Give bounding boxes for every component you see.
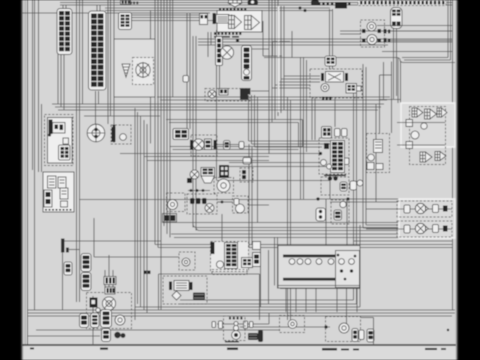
wire y199 xyxy=(316,198,452,200)
wire stubs below E xyxy=(207,32,209,57)
flasher run 1 xyxy=(397,201,452,217)
dashed strip above tail box xyxy=(212,270,247,275)
frame bottom border xyxy=(22,344,456,346)
wire y153 xyxy=(120,153,321,155)
right white panel lower xyxy=(399,199,455,238)
starter connectors DD xyxy=(81,254,91,272)
top small round x311 xyxy=(311,0,319,6)
wire bus x187-196 xyxy=(186,13,188,129)
harness box right edge xyxy=(302,120,304,147)
pickup rotor S xyxy=(87,124,105,142)
magneto cluster CC xyxy=(87,293,132,329)
wire bus x300-316 xyxy=(300,57,302,199)
left pill by CC xyxy=(80,314,89,328)
wire bus x216 xyxy=(216,30,218,180)
wire sensor link y202 xyxy=(217,201,233,203)
wire right verticals xyxy=(379,75,381,133)
junction dots y199 xyxy=(316,197,319,200)
sensor box Y2 xyxy=(187,194,217,214)
fusebox BB fuses xyxy=(289,259,295,265)
fuse box W xyxy=(43,172,74,212)
wire y51-57 xyxy=(382,51,452,53)
junction dot by D xyxy=(236,39,239,42)
sensor box Y3 xyxy=(233,196,249,213)
wire y300-316 bottom buses xyxy=(180,299,354,301)
pills right of handlebar connector xyxy=(335,129,341,137)
pill connector x316 xyxy=(316,208,326,221)
small sensor below V xyxy=(357,180,363,186)
frame left border xyxy=(27,0,29,345)
handlebar switch cluster xyxy=(319,138,349,174)
wire bus x269-284 xyxy=(268,0,270,154)
inline pill y158 right xyxy=(343,158,349,165)
connector D2 dark block xyxy=(240,88,251,95)
wire D drop bundle xyxy=(248,95,250,141)
ignition coil in J xyxy=(133,58,154,85)
wire right top pair xyxy=(340,30,452,32)
key switch grid connector xyxy=(59,145,71,160)
corner by FF xyxy=(361,317,374,319)
bottom tail-light run xyxy=(212,322,216,328)
wire y146-149 harness box bottom xyxy=(170,146,303,148)
wire y241-247 xyxy=(354,240,453,242)
relay block right of BB xyxy=(336,251,360,288)
fuel pump cluster Q xyxy=(191,135,217,156)
wire battery drop xyxy=(62,252,64,310)
relay box T xyxy=(111,125,131,144)
ticks on wires y31-40 xyxy=(384,29,387,34)
taillight box xyxy=(280,316,305,333)
rear brake switch cluster xyxy=(163,276,207,304)
bolt symbol left of coil xyxy=(122,64,130,77)
horn cone 1 xyxy=(229,16,235,29)
wire left bundle xyxy=(32,0,34,170)
wire below B to pickup xyxy=(95,91,97,124)
junction line y190 xyxy=(188,190,210,192)
wire tail runs xyxy=(240,326,330,328)
sensor circle left xyxy=(190,170,199,179)
connector C2 top stub xyxy=(121,0,131,5)
coolant sensor grid xyxy=(219,165,229,178)
sensor stub above O xyxy=(325,56,336,66)
wire y180 link xyxy=(217,180,331,182)
pin row above E xyxy=(219,8,221,11)
sensor box Y1 xyxy=(167,193,186,212)
tick marks on top bus xyxy=(130,2,132,5)
fusebox BB outer xyxy=(278,246,360,289)
pill with pins in magneto box xyxy=(91,313,100,328)
inline pill y160 xyxy=(243,158,251,165)
tail harness box xyxy=(159,273,260,275)
inline pill on x187 bus xyxy=(183,76,189,83)
battery lead pill xyxy=(64,262,72,275)
wire C to relay links xyxy=(131,14,200,16)
sensor box below Y1 xyxy=(179,252,195,270)
injector cluster U xyxy=(410,107,446,165)
wire below A bundle xyxy=(57,54,59,104)
pins under O box xyxy=(322,97,324,101)
ECU cluster AA xyxy=(211,242,249,272)
junction dots y8 xyxy=(299,7,302,10)
connector right of AA xyxy=(253,242,261,250)
pin strip G2 xyxy=(318,2,320,5)
horn symbol top cut xyxy=(229,0,242,3)
wire bus x135 xyxy=(134,108,136,320)
wire right section corner xyxy=(363,64,452,228)
wire y141-147 to handlebar xyxy=(249,140,331,142)
relay box I two rounds xyxy=(361,20,385,47)
corner links near D xyxy=(262,21,264,56)
bottom caption marks xyxy=(100,348,108,350)
relay box V xyxy=(367,134,390,173)
double square Z xyxy=(163,214,177,223)
throttle sensor cluster O xyxy=(310,69,362,98)
wire x94 to starter pills xyxy=(93,218,95,257)
right white panel upper xyxy=(401,103,455,147)
wire bus bend into O xyxy=(284,75,320,77)
wire top bus xyxy=(60,2,452,4)
wire y156-160 xyxy=(144,156,269,158)
wire y97-110 nest xyxy=(157,96,390,98)
crank sensor circle xyxy=(214,178,234,194)
relay boxes left of fusebox xyxy=(331,200,349,224)
wire bus x288-291 xyxy=(287,97,289,320)
wire y39-45 xyxy=(198,38,452,40)
wire stubs x329-335 xyxy=(329,9,331,69)
license lamp box xyxy=(224,316,246,341)
small dashed box x240 xyxy=(240,168,253,182)
left letterbox bar xyxy=(0,0,22,360)
fusebox BB bars xyxy=(283,255,338,258)
wire magneto drops xyxy=(104,270,106,293)
inline connectors to U xyxy=(406,120,413,127)
pill connector H xyxy=(391,8,403,29)
wire fusebox drops xyxy=(285,288,287,312)
wire bus x353-356 xyxy=(353,93,355,300)
horn relay box E xyxy=(217,11,262,33)
tail text marks xyxy=(225,341,239,342)
below CC small parts xyxy=(102,329,111,342)
ladder connectors above magneto xyxy=(104,277,116,285)
relay cluster y90 xyxy=(205,89,250,102)
connector block A xyxy=(57,9,72,55)
right letterbox bar xyxy=(457,0,480,360)
small connector left of E xyxy=(200,14,208,25)
battery X xyxy=(61,239,65,253)
wire verticals right of B xyxy=(107,0,109,124)
wire mid multi-bus xyxy=(162,222,452,224)
wire y119-122 harness box top xyxy=(166,119,303,121)
ignition switch cluster R xyxy=(45,115,74,166)
top pins x335 xyxy=(335,2,347,9)
horn cone 2 xyxy=(245,16,252,30)
connector D single-col xyxy=(242,46,252,81)
handlebar switch connector xyxy=(322,127,332,139)
white wire in center bus xyxy=(278,6,280,112)
main switch panel J xyxy=(114,39,155,97)
tick pair on bus xyxy=(144,271,147,275)
wire y199 left xyxy=(80,199,317,201)
frame right border xyxy=(452,0,454,310)
connector block by Q xyxy=(173,129,189,140)
top connector strip G xyxy=(358,0,446,5)
right bottom connector FF xyxy=(352,329,358,342)
lamp M with connector bar xyxy=(216,37,223,66)
dark cylinder rectifier xyxy=(248,333,258,340)
pin row below E xyxy=(214,32,216,35)
TPS barrel sensor xyxy=(201,168,215,177)
wires into handlebar circles xyxy=(229,162,320,164)
sensor boxes above fusebox xyxy=(321,177,349,195)
connector block B xyxy=(89,11,107,90)
pump inline pills xyxy=(224,141,231,150)
label text under E xyxy=(214,36,230,38)
wire stubs above A and B xyxy=(65,5,67,9)
flasher run 2 xyxy=(397,221,452,237)
round component F xyxy=(248,0,259,5)
bottom margin strip xyxy=(22,346,457,360)
wire ignition-switch drop bus xyxy=(76,0,78,302)
connector C 2x4 grid xyxy=(119,13,132,30)
wire main bus x155-173 xyxy=(154,0,156,245)
